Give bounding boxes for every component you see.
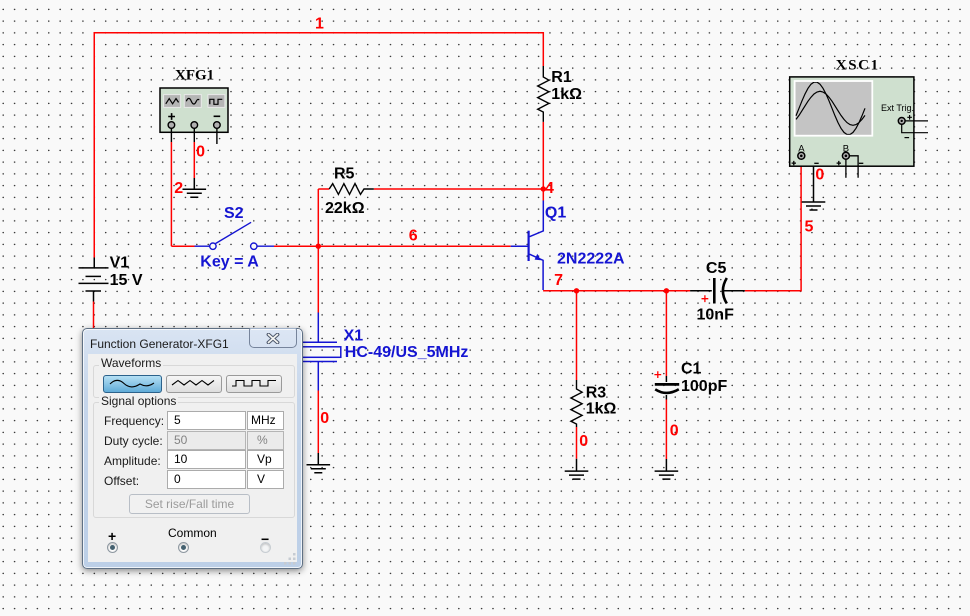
svg-text:Key = A: Key = A — [200, 253, 259, 270]
svg-text:0: 0 — [815, 167, 824, 184]
svg-text:R5: R5 — [334, 165, 355, 182]
svg-text:C1: C1 — [681, 361, 702, 378]
svg-text:0: 0 — [579, 433, 588, 450]
svg-text:0: 0 — [320, 410, 329, 427]
svg-text:X1: X1 — [344, 327, 364, 344]
svg-text:100pF: 100pF — [681, 378, 727, 395]
svg-text:A: A — [798, 143, 805, 154]
svg-text:HC-49/US_5MHz: HC-49/US_5MHz — [345, 344, 469, 361]
svg-text:2: 2 — [174, 180, 183, 197]
svg-text:2N2222A: 2N2222A — [557, 250, 625, 267]
svg-text:6: 6 — [409, 227, 418, 244]
svg-text:Ext Trig.: Ext Trig. — [881, 103, 914, 113]
svg-text:10nF: 10nF — [697, 306, 735, 323]
svg-text:XFG1: XFG1 — [175, 68, 214, 84]
svg-text:Q1: Q1 — [545, 204, 566, 221]
svg-text:S2: S2 — [224, 205, 244, 222]
svg-text:1: 1 — [315, 16, 324, 33]
svg-text:5: 5 — [805, 218, 814, 235]
svg-text:V1: V1 — [110, 254, 130, 271]
svg-text:4: 4 — [545, 180, 554, 197]
svg-text:C5: C5 — [706, 260, 727, 277]
svg-text:0: 0 — [196, 143, 205, 160]
svg-text:15 V: 15 V — [110, 272, 143, 289]
svg-text:1kΩ: 1kΩ — [551, 86, 582, 103]
svg-text:R3: R3 — [586, 385, 607, 402]
svg-text:0: 0 — [670, 422, 679, 439]
svg-text:22kΩ: 22kΩ — [325, 200, 365, 217]
svg-text:R1: R1 — [551, 69, 572, 86]
svg-text:7: 7 — [554, 272, 563, 289]
svg-text:XSC1: XSC1 — [836, 57, 880, 73]
svg-text:B: B — [843, 143, 849, 154]
svg-text:1kΩ: 1kΩ — [586, 401, 617, 418]
